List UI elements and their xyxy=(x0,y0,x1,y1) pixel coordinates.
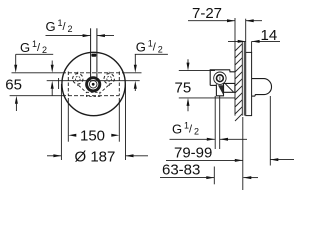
svg-text:2: 2 xyxy=(194,127,199,137)
pipe axis ext short xyxy=(213,167,215,185)
bottom small dashed rect xyxy=(87,92,100,96)
dome notch vertical xyxy=(254,95,256,97)
dim 150 ext line right xyxy=(118,98,120,142)
svg-text:7-27: 7-27 xyxy=(192,5,222,22)
body bottom right step xyxy=(224,83,235,92)
dim 79-99 right arrow xyxy=(270,159,294,161)
foot shading xyxy=(218,85,224,95)
mech dashed vertical left (150 ref) xyxy=(67,72,69,96)
svg-text:150: 150 xyxy=(80,128,105,145)
leader underline G1/2 right xyxy=(135,53,168,55)
dim 187 arrow left xyxy=(47,155,61,157)
hub center dot xyxy=(92,83,95,86)
dim 75 ext bottom xyxy=(179,97,235,99)
dim 75 top arrow xyxy=(187,59,189,64)
leader drop with arrow xyxy=(134,54,136,66)
dim 14 arrow left xyxy=(228,40,246,42)
mech top line (65 top) xyxy=(12,72,63,74)
svg-text:63-83: 63-83 xyxy=(162,162,200,179)
dim 150 ext line left xyxy=(67,98,69,142)
svg-text:2: 2 xyxy=(158,45,163,55)
left port dashed circle xyxy=(73,74,83,84)
body screw outer circle xyxy=(214,72,226,84)
leader underline G1/2 top with arrow to pipe xyxy=(46,35,91,37)
dome bottom notch xyxy=(252,95,256,97)
dim 187 ext line right xyxy=(125,84,127,160)
svg-text:G: G xyxy=(20,40,30,55)
long ext line pipe axis xyxy=(242,117,244,190)
svg-text:65: 65 xyxy=(5,77,22,94)
wall mounting face line xyxy=(245,19,247,53)
supply pipe (side) xyxy=(241,42,243,116)
pipe plug xyxy=(91,54,96,57)
port centerline tick right xyxy=(108,72,110,74)
escutcheon plate circle Ø187 xyxy=(62,52,125,115)
port centerline tick left xyxy=(77,72,79,74)
dim 79-99 line + arrow xyxy=(166,159,235,161)
G1/2 leader + arrow xyxy=(170,138,208,140)
dim 150 arrows xyxy=(68,134,76,137)
svg-text:G: G xyxy=(172,122,182,137)
svg-text:79-99: 79-99 xyxy=(174,145,212,162)
svg-text:Ø 187: Ø 187 xyxy=(75,149,116,166)
dim 63-83 line + arrow xyxy=(160,177,207,179)
svg-text:G: G xyxy=(46,19,56,34)
cartridge hub outer ring xyxy=(87,78,100,91)
dim 187 arrow right xyxy=(126,155,149,157)
step shading xyxy=(226,84,234,92)
ext line dome tip xyxy=(269,96,271,166)
supply pipe vertical line left xyxy=(90,28,92,77)
dim 65 arrows xyxy=(15,65,17,67)
body screw ring xyxy=(217,75,224,82)
label G1/2 top xyxy=(46,18,73,34)
supply pipe vertical line right xyxy=(96,28,98,77)
body screw slot xyxy=(219,77,221,80)
wall min line xyxy=(234,18,236,116)
dim 14 arrow right + underline xyxy=(252,40,280,42)
svg-text:G: G xyxy=(136,40,146,55)
wall hatch xyxy=(235,44,242,121)
dim 187 ext line left xyxy=(60,84,62,160)
handle dome xyxy=(252,79,272,95)
label G1/2 left xyxy=(20,39,47,55)
escutcheon face ext line xyxy=(251,41,253,53)
label G1/2 bottom xyxy=(172,121,199,137)
dashed diagonal left xyxy=(79,85,87,92)
dim 63-83 right arrow xyxy=(243,177,258,179)
small dim arrows at x=52 xyxy=(51,61,53,67)
right small dim up arrow xyxy=(134,81,137,89)
top dim arrow right of pipe xyxy=(97,35,114,37)
mech bottom line (65 bottom) xyxy=(10,95,62,97)
svg-text:2: 2 xyxy=(42,45,47,55)
right port dashed circle xyxy=(104,74,114,84)
hub mid circle xyxy=(89,81,97,89)
port centerline horizontal xyxy=(47,80,140,82)
svg-text:75: 75 xyxy=(175,80,192,97)
svg-text:2: 2 xyxy=(68,24,73,34)
leader underline G1/2 left xyxy=(16,53,54,55)
small ext line right of up-arrow xyxy=(58,78,60,89)
body left step xyxy=(210,84,216,86)
dim 75 ext top xyxy=(179,70,215,72)
dim 75 bottom arrow xyxy=(187,98,190,106)
mech dashed vertical right (150 ref) xyxy=(118,72,120,96)
label G1/2 right xyxy=(136,39,163,55)
body bottom left foot xyxy=(216,84,223,96)
dashed diagonal right xyxy=(101,85,109,92)
outlet pipe below body xyxy=(214,96,216,149)
leader drop with arrow to top line xyxy=(15,54,17,66)
dim 7-27 leader/arrow left xyxy=(188,20,235,22)
valve body outer xyxy=(210,70,235,86)
dim 7-27 arrow right xyxy=(246,20,262,22)
escutcheon plate edge-on xyxy=(246,52,252,115)
G1/2 right arrow xyxy=(220,138,247,140)
